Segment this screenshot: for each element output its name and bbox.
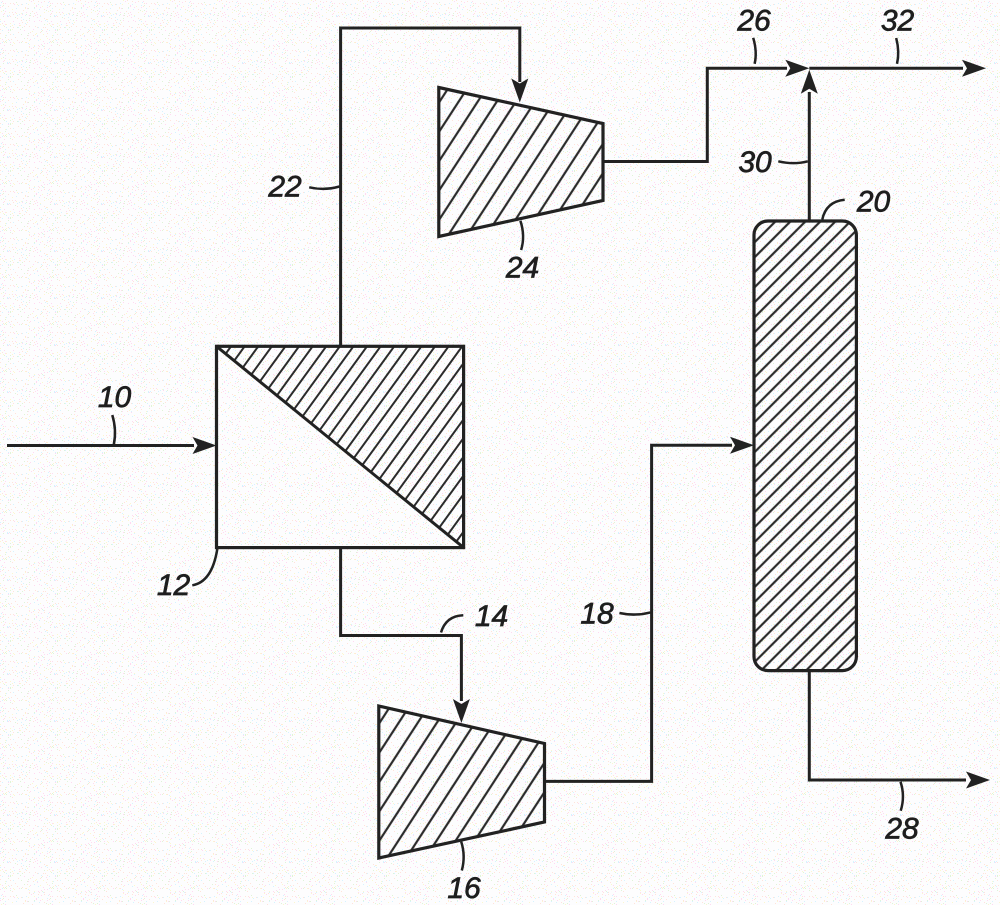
svg-text:14: 14 [475,600,508,633]
svg-text:28: 28 [884,813,919,846]
svg-text:20: 20 [856,186,891,219]
svg-text:18: 18 [580,598,614,631]
svg-text:16: 16 [447,872,481,905]
svg-text:10: 10 [98,381,132,414]
svg-text:12: 12 [157,569,191,602]
svg-text:24: 24 [505,252,539,285]
svg-text:26: 26 [736,5,771,38]
svg-text:22: 22 [267,171,302,204]
svg-text:30: 30 [738,146,772,179]
svg-text:32: 32 [881,5,915,38]
